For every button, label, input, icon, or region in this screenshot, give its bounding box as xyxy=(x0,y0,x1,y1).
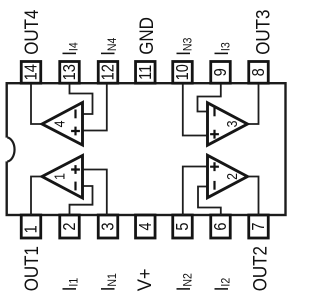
pin 14 box xyxy=(21,62,41,84)
wire pin7 to op-amp2 output xyxy=(248,177,259,216)
svg-text:9: 9 xyxy=(212,68,230,76)
wire pin9 to op-amp3 inverting input xyxy=(198,84,221,112)
notch (pin-1 index on left edge) xyxy=(4,137,15,161)
wire pin6 to op-amp2 inverting input xyxy=(198,187,221,216)
wire pin5 to op-amp2 non-inverting input xyxy=(183,167,208,216)
op-amp 1 plus mark xyxy=(71,165,80,174)
wire pin10 to op-amp3 non-inverting input xyxy=(183,84,208,136)
svg-text:13: 13 xyxy=(61,64,79,80)
svg-text:OUT3: OUT3 xyxy=(253,10,274,55)
svg-text:4: 4 xyxy=(52,120,68,127)
svg-text:11: 11 xyxy=(137,65,155,80)
op-amp 4 triangle xyxy=(42,103,83,146)
svg-text:2: 2 xyxy=(224,173,240,180)
svg-text:8: 8 xyxy=(250,68,268,76)
svg-text:OUT1: OUT1 xyxy=(21,246,42,291)
pin 2 box xyxy=(60,215,80,238)
op-amp 4 plus mark xyxy=(71,127,80,136)
svg-text:6: 6 xyxy=(212,222,230,230)
op-amp 4 minus mark xyxy=(74,110,76,119)
svg-text:OUT4: OUT4 xyxy=(21,10,42,55)
svg-text:14: 14 xyxy=(23,64,41,80)
op-amp 3 minus mark xyxy=(213,108,215,117)
pin 10 box xyxy=(173,62,193,84)
svg-text:5: 5 xyxy=(174,222,192,230)
op-amp 2 plus mark xyxy=(210,162,219,171)
svg-text:GND: GND xyxy=(136,17,157,55)
op-amp 2 minus mark xyxy=(213,181,215,190)
pin 9 box xyxy=(211,62,231,84)
op-amp 2 triangle xyxy=(208,155,248,197)
wire pin12 to op-amp4 non-inverting input xyxy=(82,84,107,131)
wire pin14 to op-amp4 output xyxy=(31,84,41,124)
op-amp 1 triangle xyxy=(42,156,83,199)
svg-text:OUT2: OUT2 xyxy=(250,246,271,291)
wire pin8 to op-amp3 output xyxy=(248,84,259,124)
pin 1 box xyxy=(21,215,41,238)
pin 11 box xyxy=(136,62,156,84)
wire pin13 to op-amp4 inverting input xyxy=(70,84,93,114)
pin 8 box xyxy=(249,62,269,84)
pin 5 box xyxy=(173,215,193,238)
IC body U1 (DIP-14 outline) xyxy=(7,83,286,215)
pin 3 box xyxy=(98,215,118,238)
pin 6 box xyxy=(211,215,231,238)
pin 12 box xyxy=(98,62,118,84)
svg-text:3: 3 xyxy=(224,121,240,128)
svg-text:7: 7 xyxy=(250,222,268,230)
wire pin2 to op-amp1 inverting input xyxy=(70,186,93,215)
op-amp 3 plus mark xyxy=(210,130,219,139)
wire pin1 to op-amp1 output xyxy=(31,177,41,216)
wire pin3 to op-amp1 non-inverting input xyxy=(82,170,107,216)
pin 4 box xyxy=(136,215,156,238)
pin 13 box xyxy=(60,62,80,84)
op-amp 1 minus mark xyxy=(74,182,76,191)
svg-text:2: 2 xyxy=(61,222,79,230)
svg-text:1: 1 xyxy=(52,173,68,180)
svg-text:12: 12 xyxy=(100,64,118,80)
svg-text:3: 3 xyxy=(100,222,118,230)
op-amp 3 triangle xyxy=(208,103,248,145)
pin 7 box xyxy=(249,215,269,238)
svg-text:4: 4 xyxy=(137,222,155,230)
svg-text:V+: V+ xyxy=(134,268,156,291)
svg-text:10: 10 xyxy=(174,64,192,80)
svg-text:1: 1 xyxy=(23,225,41,233)
